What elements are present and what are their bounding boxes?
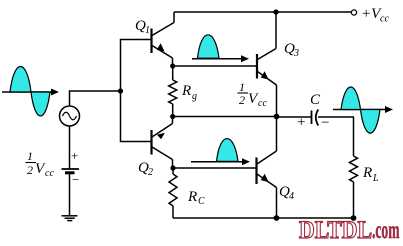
- svg-text:cc: cc: [258, 98, 267, 109]
- transistor Q1: [152, 23, 175, 59]
- wire Q3 emitter to mid node: [276, 85, 278, 117]
- wire Q2 emitter up to mid node: [172, 117, 174, 124]
- node mid-right (Q3 emitter / Q4 collector / C): [274, 114, 280, 120]
- svg-text:2: 2: [239, 93, 245, 107]
- node mid-left (Rg bottom / Q2 emitter): [170, 114, 175, 119]
- +Vcc terminal: [351, 10, 356, 15]
- battery 1/2 Vcc: [62, 169, 80, 173]
- wire node A to Q3 base: [173, 65, 257, 67]
- annotation arrow top (Q3 input waveform): [192, 55, 249, 62]
- wire Q1 collector to top rail: [173, 12, 175, 23]
- wire AC source top to input node: [70, 91, 121, 106]
- output signal axis arrow: [333, 106, 393, 113]
- input sine wave positive lobe: [10, 67, 31, 93]
- output sine wave positive lobe: [341, 87, 361, 110]
- svg-text:−: −: [321, 115, 329, 131]
- output sine wave negative lobe: [361, 110, 381, 134]
- node input junction: [118, 88, 123, 93]
- wire battery to ground: [69, 173, 71, 216]
- svg-text:g: g: [192, 91, 197, 102]
- node bottom (Q4 emitter): [274, 215, 280, 221]
- node bottom right (RL bottom): [351, 215, 357, 221]
- svg-text:3: 3: [293, 48, 299, 59]
- transistor Q3: [257, 49, 277, 86]
- svg-text:−: −: [72, 172, 79, 187]
- output wire down to RL: [353, 117, 355, 156]
- transistor Q4: [257, 151, 277, 188]
- resistor RL: [350, 156, 358, 218]
- top rail wire: [174, 11, 352, 13]
- svg-text:.com: .com: [372, 217, 400, 244]
- svg-text:1: 1: [145, 25, 150, 36]
- capacitor C: [277, 110, 355, 126]
- transistor Q2 (PNP): [152, 124, 173, 160]
- annotation arrow bottom (Q4 input waveform): [191, 158, 250, 165]
- node B (Q2 collector / RC top): [170, 165, 175, 170]
- svg-text:4: 4: [289, 191, 294, 202]
- node A (Q1 emitter / Rg top): [170, 63, 175, 68]
- waveform half-sine pulse bottom: [217, 139, 239, 162]
- wire input node up to Q1 base: [121, 40, 151, 92]
- wire Q4 emitter down to bottom rail: [276, 188, 278, 219]
- svg-text:1: 1: [27, 149, 33, 163]
- svg-text:1: 1: [239, 80, 245, 94]
- input sine wave negative lobe: [31, 92, 50, 116]
- label +Vcc: [361, 6, 389, 25]
- wire node B to Q4 base: [173, 167, 256, 169]
- wire AC source bottom to battery: [69, 126, 71, 169]
- wire Q4 collector up to mid node: [276, 117, 278, 152]
- svg-text:2: 2: [148, 167, 153, 178]
- ground: [62, 216, 78, 221]
- AC source V1: [60, 106, 80, 126]
- svg-text:cc: cc: [45, 168, 54, 179]
- label 1/2 Vcc mid: [238, 80, 268, 109]
- node top rail / Q3 collector: [273, 9, 278, 14]
- svg-text:R: R: [187, 189, 197, 205]
- wire mid horizontal: [173, 116, 277, 118]
- input signal axis arrow: [2, 89, 59, 96]
- bottom rail wire: [173, 217, 354, 219]
- wire Q3 collector to rail: [275, 12, 277, 49]
- watermark DLTDL.com: [299, 217, 400, 244]
- svg-text:L: L: [372, 173, 379, 184]
- svg-text:DLTDL: DLTDL: [299, 217, 372, 244]
- svg-text:R: R: [362, 165, 372, 181]
- svg-text:C: C: [198, 196, 205, 207]
- svg-text:+V: +V: [361, 6, 382, 22]
- svg-text:2: 2: [27, 163, 33, 177]
- wire input node down to Q2 base: [121, 91, 151, 142]
- svg-text:+: +: [297, 115, 305, 131]
- wire Q1 emitter down to node A: [172, 58, 174, 66]
- wire Q2 collector down to node B: [172, 160, 174, 169]
- label 1/2 Vcc battery: [26, 149, 55, 179]
- svg-text:+: +: [71, 148, 78, 163]
- resistor RC: [169, 168, 177, 218]
- svg-text:R: R: [181, 83, 191, 99]
- waveform half-sine pulse top: [198, 35, 220, 58]
- resistor Rg: [169, 66, 177, 117]
- svg-text:cc: cc: [380, 14, 389, 25]
- svg-text:C: C: [310, 92, 321, 108]
